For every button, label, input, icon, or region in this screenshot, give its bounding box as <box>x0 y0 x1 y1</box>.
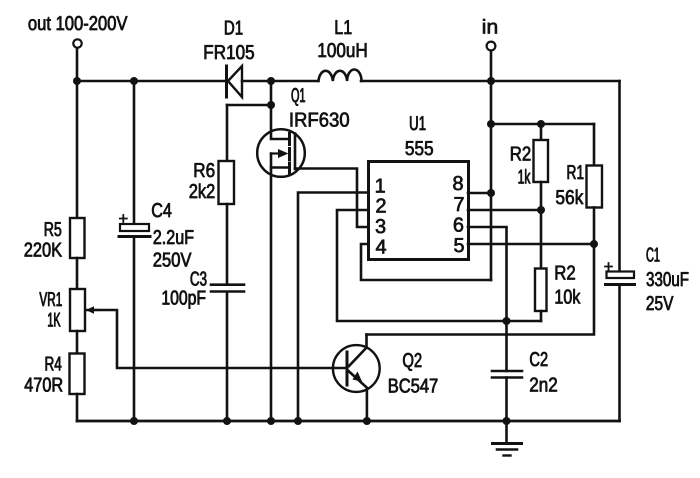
pin 4 <box>376 240 386 254</box>
wire C3 to bottom rail <box>226 293 229 421</box>
Q1 arrow <box>271 152 279 154</box>
wire R1 top stub <box>593 124 596 166</box>
wire R2b bottom <box>540 311 543 321</box>
Q2 emitter arrow <box>353 372 363 382</box>
potentiometer VR1 <box>70 289 85 331</box>
wire in rail <box>490 52 493 280</box>
label D1 <box>225 21 242 35</box>
label C3 <box>191 272 207 286</box>
wire C4 upper <box>133 81 136 224</box>
diode D1 <box>225 66 228 97</box>
label C1 <box>647 248 660 262</box>
label R1 <box>568 165 584 179</box>
node emitter ground <box>363 417 371 425</box>
ground <box>505 421 508 443</box>
wire VR1 to R4 <box>76 331 79 354</box>
wire pin 4 reset <box>361 244 491 280</box>
label out <box>29 16 128 30</box>
resistor R4 <box>70 354 85 395</box>
wire R5 to VR1 <box>76 258 79 289</box>
label L1 <box>336 20 352 34</box>
wire Q1 source to bottom rail <box>270 154 273 422</box>
node pin7 <box>537 206 545 214</box>
node pin5 <box>590 240 598 248</box>
node snubber <box>267 101 275 109</box>
pin 1 <box>376 179 385 193</box>
resistor R2 10k <box>535 269 547 312</box>
label R6 <box>195 163 215 177</box>
Q1 source stub <box>271 166 290 169</box>
wire R4 to bottom rail <box>76 394 79 421</box>
label 100uH <box>319 43 367 57</box>
wire pin 2 trigger <box>337 210 541 321</box>
pin 3 <box>376 219 385 233</box>
Q1 drain lead <box>271 105 290 139</box>
capacitor C2 <box>492 371 522 378</box>
label 330uF <box>647 272 689 286</box>
resistor R2 1k <box>534 140 549 182</box>
pin 7 <box>455 197 464 211</box>
inductor L1 <box>319 70 362 82</box>
wire pin 5 control <box>468 243 594 246</box>
node C2 ground <box>503 417 511 425</box>
pin 2 <box>376 199 385 213</box>
node R2 top <box>537 120 545 128</box>
resistor R6 <box>219 161 235 204</box>
node C4 bottom <box>130 417 138 425</box>
wire out terminal to top bus <box>76 49 79 81</box>
wire node drop <box>270 81 273 105</box>
label R4 <box>46 357 62 371</box>
VR1 wiper arrow <box>93 309 99 311</box>
wire gate to pin 3 <box>295 169 368 228</box>
wire C2 to ground <box>505 378 508 422</box>
wire R divider top bus <box>491 123 594 126</box>
in terminal <box>487 42 496 51</box>
wire left rail to R5 <box>76 81 79 218</box>
label 100pF <box>163 291 206 309</box>
node rtop junction <box>487 120 495 128</box>
wire bottom rail <box>77 420 620 423</box>
wire L1 to right rail <box>361 80 620 83</box>
label 2n2 <box>530 378 557 392</box>
wire wiper to base <box>86 310 347 368</box>
transistor Q2 <box>333 345 380 392</box>
wire D1 to L1 <box>242 80 318 83</box>
label 470R <box>25 378 63 392</box>
node trigger junction <box>503 317 511 325</box>
label U1 <box>410 116 425 130</box>
wire pin 8 stub <box>468 192 491 195</box>
wire R2b top stub <box>540 210 543 269</box>
label R2 10k <box>556 266 575 280</box>
node pin8 vcc <box>487 189 495 197</box>
wire snubber horizontal <box>227 104 271 107</box>
wire R1 bottom stub <box>593 208 596 245</box>
Q2 base bar <box>346 352 349 385</box>
wire pin 6 threshold to C2 <box>468 227 507 371</box>
node pin1 ground <box>294 417 302 425</box>
node source bottom <box>267 417 275 425</box>
wire R6 top <box>226 105 229 161</box>
label 25V <box>647 296 674 310</box>
wire C4 lower <box>133 238 136 421</box>
label 56k <box>556 190 583 205</box>
label Q2 <box>403 353 421 371</box>
capacitor C3 <box>211 285 244 292</box>
resistor R1 <box>587 166 603 208</box>
wire R6 to C3 <box>226 204 229 284</box>
node switch top <box>267 77 275 85</box>
wire pin 7 discharge <box>468 209 541 212</box>
label R2 <box>511 147 530 161</box>
label 2k2 <box>190 184 215 199</box>
pin 5 <box>454 238 463 252</box>
capacitor C4 <box>120 215 127 222</box>
out terminal <box>73 39 81 47</box>
node in junction <box>487 77 495 85</box>
node C3 bottom <box>223 417 231 425</box>
label BC547 <box>389 379 437 393</box>
label IRF630 <box>291 113 349 127</box>
resistor R5 <box>70 218 85 258</box>
transistor Q1 mosfet <box>257 129 305 177</box>
label 2.2uF <box>154 230 194 244</box>
wire right rail lower <box>618 286 621 421</box>
Q1 channel segments <box>288 134 291 175</box>
label 250V <box>154 253 192 267</box>
label 555 <box>406 141 433 155</box>
label C4 <box>152 203 171 217</box>
wire pin 1 to ground <box>298 193 368 422</box>
wire R1 to collector <box>367 244 595 335</box>
label Q1 <box>292 88 305 106</box>
label 10k <box>556 289 581 304</box>
label 1k <box>519 169 531 184</box>
op-amp U1 555 box <box>369 162 469 260</box>
node C4 top <box>130 77 138 85</box>
label 220K <box>25 243 62 257</box>
label FR105 <box>205 45 254 59</box>
wire R2 bottom stub <box>540 182 543 210</box>
label 1K <box>48 313 60 327</box>
pin 6 <box>454 218 463 232</box>
label VR1 <box>39 292 61 306</box>
node out junction <box>73 77 81 85</box>
Q1 gate bar <box>294 134 297 170</box>
label R5 <box>45 222 61 236</box>
label C2 <box>530 352 547 366</box>
wire R2 top stub <box>540 124 543 140</box>
Q2 emitter lead <box>349 371 367 421</box>
wire top-left bus <box>77 80 225 83</box>
capacitor C1 <box>605 263 612 270</box>
Q2 collector lead <box>349 335 367 367</box>
pin 8 <box>453 176 462 190</box>
label in <box>483 19 497 34</box>
wire right rail upper <box>618 81 621 272</box>
